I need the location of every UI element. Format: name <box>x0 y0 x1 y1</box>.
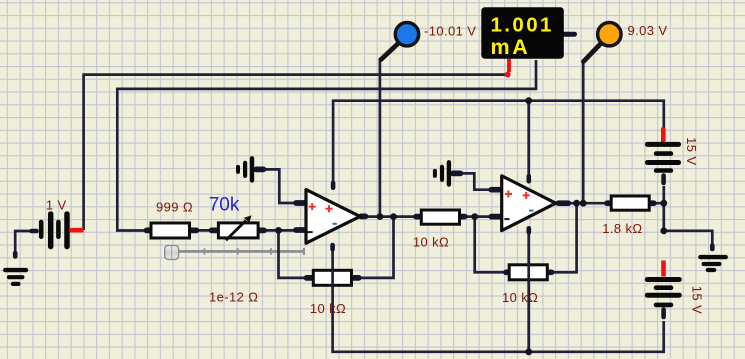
bottom 15V battery positive (red) terminal <box>661 261 666 277</box>
wire: 1.8k to right rail, ground branch, top battery bottom <box>655 186 712 250</box>
svg-text:1.8 kΩ: 1.8 kΩ <box>602 221 642 236</box>
resistor R6 lead stubs <box>607 200 654 206</box>
wire: feedback loop of U2 (R5) <box>475 203 577 272</box>
op-amp U2 supply + mark <box>523 192 530 199</box>
op-amp U2 input/output pin stubs <box>491 190 568 217</box>
svg-text:10 kΩ: 10 kΩ <box>413 234 449 249</box>
wire: op-amp U2 V- drop to bottom rail <box>527 232 530 352</box>
resistor R5 lead stubs <box>506 269 552 275</box>
wire: ground G2 to U1 noninverting input <box>263 169 297 203</box>
resistor R3 lead stubs <box>307 275 359 281</box>
potentiometer R2 lead stubs <box>212 228 265 234</box>
wire: orange probe drop to U2 output <box>582 61 585 204</box>
junction dot: -15V rail to U2 <box>525 348 532 355</box>
op-amp U1 input - mark <box>308 231 313 233</box>
resistor R3 10 kohm body (U1 feedback) <box>313 270 351 285</box>
junction dot: +15V rail to U2 <box>525 97 532 104</box>
resistor R6 1.8 kohm body <box>611 196 649 210</box>
op-amp U2 body <box>502 176 556 231</box>
svg-text:999 Ω: 999 Ω <box>156 199 193 214</box>
op-amp U1 input/output pin stubs <box>296 203 366 230</box>
svg-text:15 V: 15 V <box>684 137 699 165</box>
top battery bottom lead nub <box>661 176 666 184</box>
wire: 1V battery negative to ground G1 <box>15 231 32 258</box>
resistor R4 lead stubs <box>416 214 465 220</box>
svg-text:9.03 V: 9.03 V <box>628 23 668 38</box>
wire: pot output to U1 inverting input <box>196 229 297 232</box>
resistor R1 999ohm lead stubs <box>147 228 197 234</box>
svg-text:10 kΩ: 10 kΩ <box>310 301 346 316</box>
potentiometer R2 70k body <box>218 223 258 238</box>
junction dot: U1 inverting input node <box>275 227 282 234</box>
junction dot: U2 inverting input node <box>471 213 478 220</box>
op-amp U1 supply + mark <box>326 205 333 212</box>
ammeter right terminal stub <box>565 32 575 37</box>
ground G2 (at U1 noninverting input, rotated) <box>238 158 252 180</box>
potentiometer slider knob <box>165 245 179 259</box>
resistor R4 10 kohm body (series) <box>421 210 459 224</box>
orange voltage probe tail <box>584 44 601 62</box>
svg-text:-10.01 V: -10.01 V <box>424 24 476 39</box>
ground G2 stub <box>256 167 264 173</box>
svg-text:70k: 70k <box>209 194 240 215</box>
svg-text:mA: mA <box>491 35 531 59</box>
wire: U2 output row to 1.8k resistor <box>568 202 606 205</box>
op-amp U2 V- pin cap <box>526 228 531 232</box>
junction dot: U1 output / blue probe <box>377 213 384 220</box>
op-amp U1 V- pin cap <box>330 245 335 249</box>
top 15V battery B1 plates <box>647 144 678 170</box>
wire: U2 V- crossing over R5 body <box>527 264 530 281</box>
ground G3 stub <box>453 171 461 177</box>
1V battery B3 plates <box>41 214 67 247</box>
op-amp U2 V+ pin cap <box>526 176 531 181</box>
potentiometer slider track <box>179 248 305 255</box>
wire: op-amp U2 V+ drop from +15V rail <box>527 101 530 175</box>
wire: -15V bottom rail from U1 and U2 V- to bottom battery <box>333 246 664 352</box>
resistor R5 10 kohm body (U2 feedback) <box>509 265 547 280</box>
op-amp U1 V+ pin cap <box>331 183 336 188</box>
op-amp U2 input - mark <box>504 218 509 220</box>
bottom 15V battery B2 plates <box>647 280 679 305</box>
wire: battery + to ammeter red lead (top rail y=74.6) <box>84 75 507 230</box>
bottom battery bottom lead nub <box>661 310 666 318</box>
wire: feedback loop of U1 (R3) <box>279 217 394 278</box>
svg-text:15 V: 15 V <box>689 286 704 314</box>
ground G1 (left, under 1V battery) <box>5 270 26 284</box>
wire: U1 output row to series resistor R4 and U2 inverting input <box>364 215 492 218</box>
junction dot: right rail at 1.8k <box>660 200 667 207</box>
wire: ammeter black lead to 999ohm input <box>117 60 536 231</box>
op-amp U1 body <box>306 190 360 244</box>
junction dot: U1 output / feedback <box>390 213 397 220</box>
op-amp U1 supply - mark <box>333 223 337 225</box>
lead stubs (thick) <box>147 169 654 278</box>
svg-text:10 kΩ: 10 kΩ <box>502 290 538 305</box>
1V battery negative lead taper <box>32 229 37 234</box>
potentiometer R2 wiper arrow <box>226 220 246 240</box>
orange voltage probe head <box>598 23 621 46</box>
ground G4 wire end nub <box>710 246 715 250</box>
blue voltage probe tail <box>381 44 398 60</box>
wire: U1 V- crossing over R3 body <box>331 270 334 286</box>
op-amp U1 input + mark <box>309 203 316 210</box>
svg-text:1e-12 Ω: 1e-12 Ω <box>209 289 258 304</box>
ground G4 (right, between batteries) <box>700 257 725 270</box>
junction dot: right rail ground branch <box>660 227 667 234</box>
svg-text:1 V: 1 V <box>46 198 67 213</box>
ground G3 (at U2 noninverting input, rotated) <box>435 162 449 184</box>
op-amp U2 input + mark <box>505 191 512 198</box>
wire: ground G3 to U2 noninverting input <box>461 173 492 189</box>
ammeter M1 display body <box>481 7 564 59</box>
svg-text:1.001: 1.001 <box>491 13 554 36</box>
1V battery positive (red) terminal stub <box>70 228 84 233</box>
ground G1 wire end nub <box>13 253 18 257</box>
red endpoint dot of ammeter red lead <box>505 72 511 78</box>
blue voltage probe head <box>395 23 418 46</box>
junction dot: U2 output / orange probe <box>580 200 587 207</box>
top 15V battery positive (red) terminal <box>661 128 666 143</box>
wire: +15V rail from op-amp U1 V+ to top battery <box>333 101 664 186</box>
op-amp U2 supply - mark <box>529 210 533 212</box>
junction dot: U2 output / feedback <box>573 200 580 207</box>
ammeter red lead <box>507 59 511 72</box>
wire: blue probe drop to U1 output <box>379 58 382 217</box>
resistor R1 999 ohm body <box>151 223 190 238</box>
